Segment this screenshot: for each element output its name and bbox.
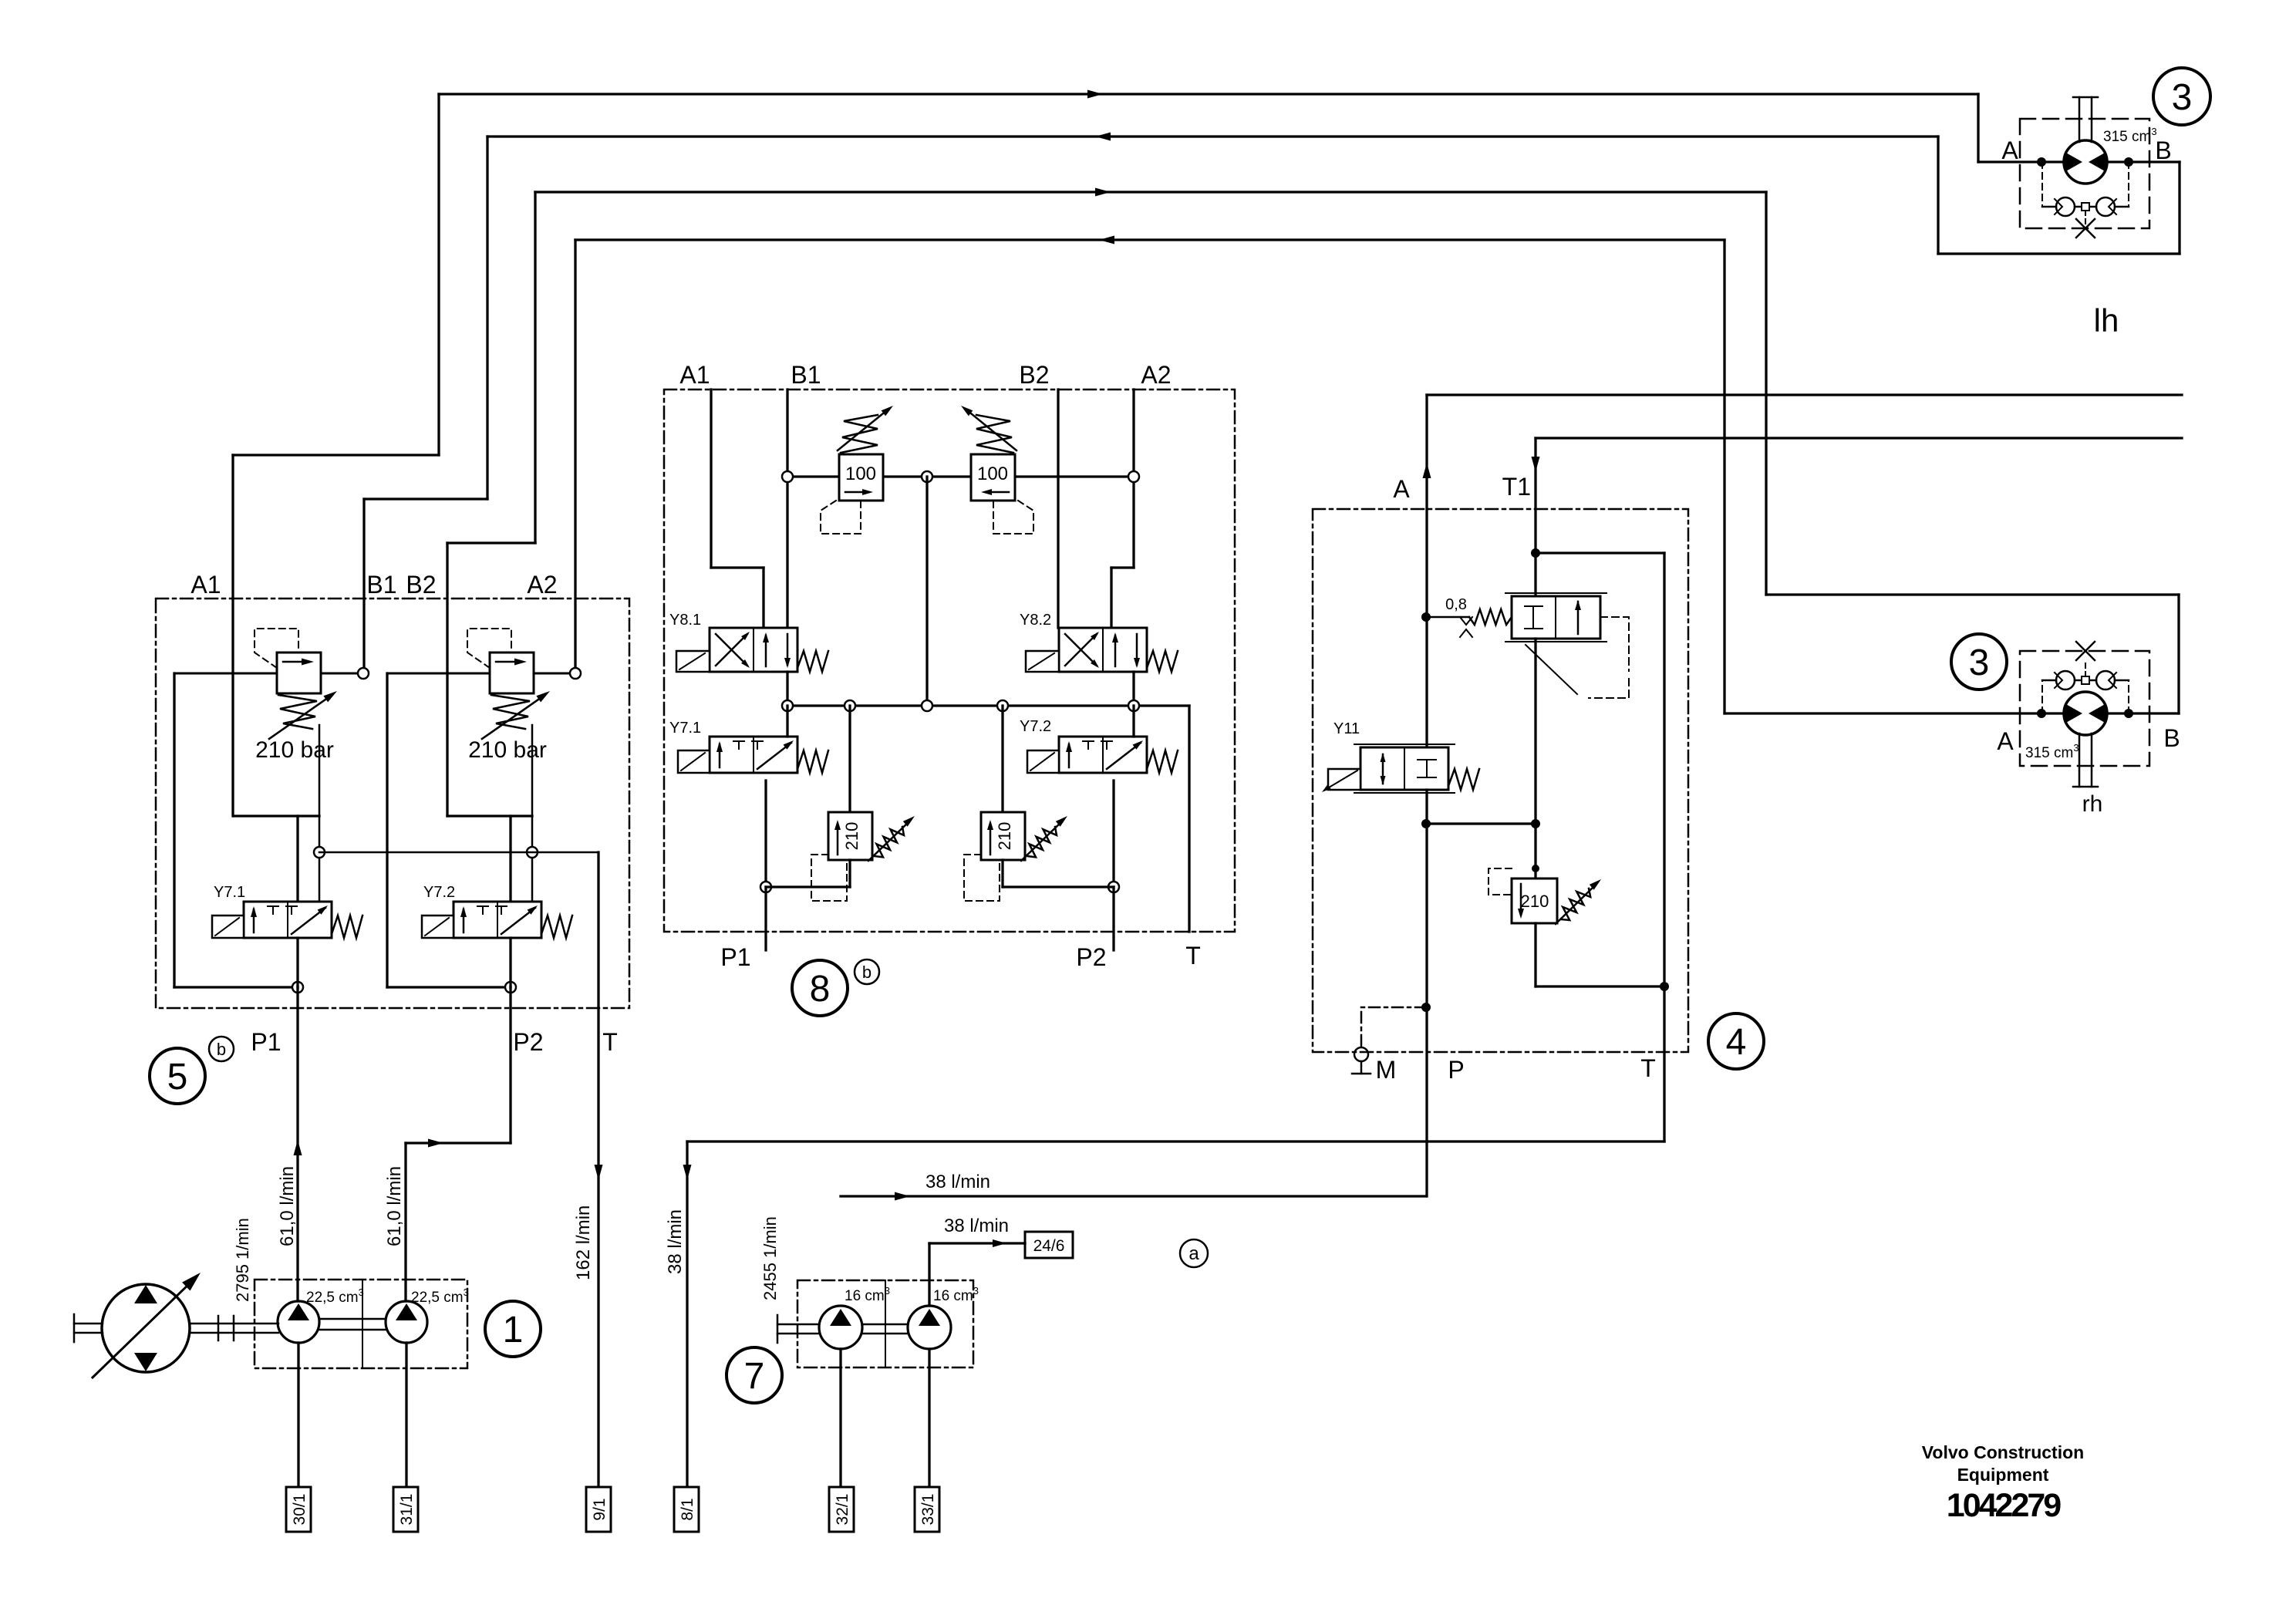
svg-text:61,0 l/min: 61,0 l/min	[384, 1166, 405, 1246]
svg-text:T: T	[602, 1028, 618, 1056]
svg-text:P1: P1	[720, 943, 750, 971]
svg-text:Y11: Y11	[1333, 720, 1360, 737]
svg-text:3: 3	[2172, 77, 2193, 118]
svg-text:4: 4	[1726, 1022, 1747, 1063]
svg-text:A: A	[1393, 475, 1410, 503]
svg-text:B2: B2	[406, 571, 436, 599]
svg-text:1042279: 1042279	[1947, 1487, 2061, 1524]
svg-text:P2: P2	[513, 1028, 543, 1056]
svg-text:T: T	[1185, 942, 1201, 969]
svg-text:3: 3	[1969, 642, 1990, 683]
svg-text:61,0 l/min: 61,0 l/min	[277, 1166, 298, 1246]
svg-text:A1: A1	[190, 571, 221, 599]
svg-text:Volvo Construction: Volvo Construction	[1922, 1442, 2084, 1462]
svg-text:210 bar: 210 bar	[468, 737, 547, 763]
svg-text:8: 8	[810, 969, 831, 1010]
svg-text:A: A	[2001, 137, 2018, 164]
svg-text:7: 7	[744, 1356, 765, 1397]
svg-text:210: 210	[1521, 892, 1549, 911]
svg-text:B2: B2	[1019, 361, 1049, 389]
svg-text:100: 100	[845, 464, 876, 484]
svg-text:32/1: 32/1	[834, 1494, 851, 1526]
svg-text:T: T	[1640, 1054, 1656, 1082]
svg-text:162 l/min: 162 l/min	[573, 1206, 594, 1280]
svg-text:b: b	[217, 1040, 226, 1059]
svg-text:22,5 cm3: 22,5 cm3	[411, 1286, 469, 1306]
svg-text:B1: B1	[366, 571, 396, 599]
svg-text:2795 1/min: 2795 1/min	[233, 1218, 252, 1302]
svg-text:A2: A2	[1141, 361, 1171, 389]
svg-text:M: M	[1376, 1056, 1397, 1084]
svg-text:P: P	[1448, 1056, 1464, 1084]
svg-text:Y8.2: Y8.2	[1020, 612, 1051, 629]
svg-text:T1: T1	[1502, 473, 1531, 501]
svg-text:P2: P2	[1076, 943, 1106, 971]
svg-text:a: a	[1188, 1243, 1199, 1264]
svg-text:22,5 cm3: 22,5 cm3	[306, 1286, 364, 1306]
svg-text:Y7.1: Y7.1	[214, 884, 245, 901]
svg-text:0,8: 0,8	[1445, 596, 1467, 613]
svg-text:315 cm3: 315 cm3	[2103, 126, 2157, 145]
svg-text:38 l/min: 38 l/min	[665, 1209, 686, 1274]
svg-text:B: B	[2155, 137, 2171, 164]
svg-text:210 bar: 210 bar	[255, 737, 334, 763]
svg-text:315 cm3: 315 cm3	[2025, 742, 2079, 761]
svg-text:B: B	[2163, 724, 2180, 752]
svg-text:1: 1	[503, 1310, 524, 1351]
svg-text:A: A	[1997, 727, 2014, 755]
svg-text:16 cm3: 16 cm3	[845, 1285, 890, 1304]
svg-text:30/1: 30/1	[291, 1494, 308, 1526]
svg-text:2455 1/min: 2455 1/min	[760, 1216, 780, 1300]
svg-text:38 l/min: 38 l/min	[925, 1172, 990, 1192]
svg-text:P1: P1	[251, 1028, 281, 1056]
svg-text:Y7.2: Y7.2	[423, 884, 455, 901]
svg-text:33/1: 33/1	[919, 1494, 937, 1526]
svg-text:B1: B1	[791, 361, 821, 389]
svg-text:Equipment: Equipment	[1957, 1465, 2049, 1485]
svg-text:100: 100	[977, 464, 1008, 484]
svg-text:24/6: 24/6	[1033, 1237, 1065, 1255]
svg-text:A1: A1	[679, 361, 710, 389]
svg-text:9/1: 9/1	[591, 1498, 609, 1520]
svg-text:38 l/min: 38 l/min	[944, 1216, 1009, 1236]
svg-text:rh: rh	[2082, 791, 2103, 817]
svg-text:8/1: 8/1	[679, 1498, 696, 1520]
svg-text:Y7.1: Y7.1	[669, 720, 701, 737]
svg-text:Y8.1: Y8.1	[669, 612, 701, 629]
svg-text:lh: lh	[2094, 302, 2119, 339]
svg-text:b: b	[862, 963, 872, 982]
svg-text:210: 210	[842, 822, 861, 851]
svg-text:Y7.2: Y7.2	[1020, 718, 1051, 735]
svg-text:A2: A2	[527, 571, 557, 599]
svg-text:5: 5	[167, 1057, 188, 1098]
svg-text:210: 210	[995, 822, 1014, 851]
svg-text:31/1: 31/1	[398, 1494, 416, 1526]
svg-text:16 cm3: 16 cm3	[933, 1285, 979, 1304]
